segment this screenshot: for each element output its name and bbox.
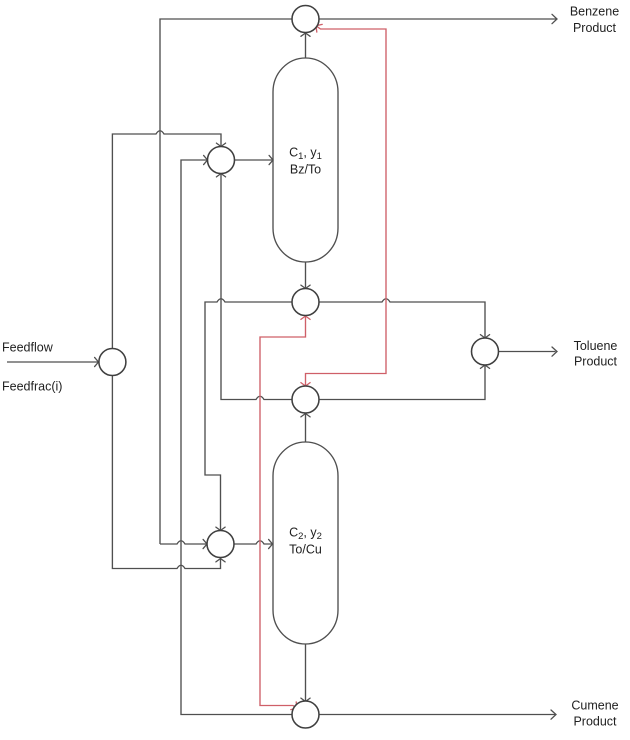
arrow into C top [301, 698, 310, 701]
wire red: cumene splitter to S1 bottom [260, 316, 306, 708]
arrow into M2 left [203, 539, 207, 548]
wire: M2 left input from benzene recycle (hop over x=181) [160, 541, 206, 544]
arrow into S2 bottom [301, 414, 310, 417]
arrow into benzene splitter bottom [301, 33, 310, 36]
wire: M1 output to column1 [235, 159, 273, 161]
svg-text:Product: Product [574, 355, 618, 369]
wire: column2 bottom to C [305, 644, 307, 701]
arrow into feed circle [95, 357, 99, 366]
arrowheads black [95, 14, 557, 719]
arrow toluene product [552, 347, 557, 356]
circles [99, 6, 499, 729]
red arrow into benzene splitter [313, 22, 322, 32]
wire: S1 right output to T top (hop over red x=386) [319, 299, 485, 337]
svg-text:Product: Product [573, 21, 617, 35]
red arrow into S2 top [301, 383, 310, 386]
arrow into M1 top [216, 143, 225, 146]
column C2 To/Cu [273, 442, 338, 644]
svg-text:To/Cu: To/Cu [289, 543, 322, 557]
arrow into T bottom [480, 365, 489, 368]
wire: cumene recycle up to M1 left [181, 160, 292, 715]
svg-text:Feedfrac(i): Feedfrac(i) [2, 380, 62, 394]
svg-text:Bz/To: Bz/To [290, 163, 321, 177]
wire: M1 bottom from S2 left output [221, 175, 225, 400]
arrow into T top [480, 335, 489, 338]
wire: benzene product line [320, 18, 557, 20]
red recycle wires [260, 26, 386, 708]
red arrow into S1 bottom [301, 316, 310, 319]
red arrow into cumene splitter [291, 702, 300, 712]
splitter S2 [292, 386, 319, 413]
wire: feed up to M1 top (hop over x=160) [112, 131, 221, 349]
splitter benzene B [292, 6, 319, 33]
wire: feed down to M2 bottom (hop over x=181) [112, 375, 220, 569]
arrowheads red [291, 22, 322, 712]
arrow into M2 top [216, 527, 225, 530]
wire red: benzene splitter to S2 top [306, 26, 387, 385]
wire: cumene product line [319, 714, 555, 716]
wire: M2 output to column2 (hop over red x=260) [234, 541, 272, 544]
svg-text:Product: Product [573, 715, 617, 729]
arrow into M2 bottom [216, 559, 225, 562]
wire: benzene splitter left branch down to M2 [160, 19, 292, 544]
arrow into column1 left [269, 155, 273, 164]
wire: feedflow input arrow line [7, 361, 98, 363]
splitter cumene C [292, 701, 319, 728]
arrow into column2 left [269, 539, 273, 548]
wire: toluene product line [499, 351, 556, 353]
svg-text:Feedflow: Feedflow [2, 341, 54, 355]
mixer M2 [207, 531, 234, 558]
arrow cumene product [551, 710, 556, 719]
splitter S1 [292, 289, 319, 316]
wire: column1 bottom to S1 [305, 262, 307, 288]
svg-text:Benzene: Benzene [570, 5, 619, 19]
svg-text:Toluene: Toluene [574, 339, 618, 353]
mixer M1 [208, 147, 235, 174]
feed splitter F [99, 349, 126, 376]
svg-text:Cumene: Cumene [571, 699, 618, 713]
mixer T toluene [472, 338, 499, 365]
wire: S2 bottom to column2 top [305, 414, 307, 442]
arrow benzene product [552, 14, 557, 23]
arrow into M1 bottom [216, 174, 225, 177]
wire: S2 right output to T bottom [319, 366, 485, 400]
arrow into M1 left [204, 155, 208, 164]
wire: S2 left output horiz to x=221 (hop over red x=260) [225, 396, 292, 399]
wire: S1 left output to M2 top (hop over x=221) [205, 299, 292, 530]
arrow into S1 top [301, 285, 310, 288]
column C1 Bz/To [273, 58, 338, 262]
wire: column1 top to benzene splitter [305, 34, 307, 59]
